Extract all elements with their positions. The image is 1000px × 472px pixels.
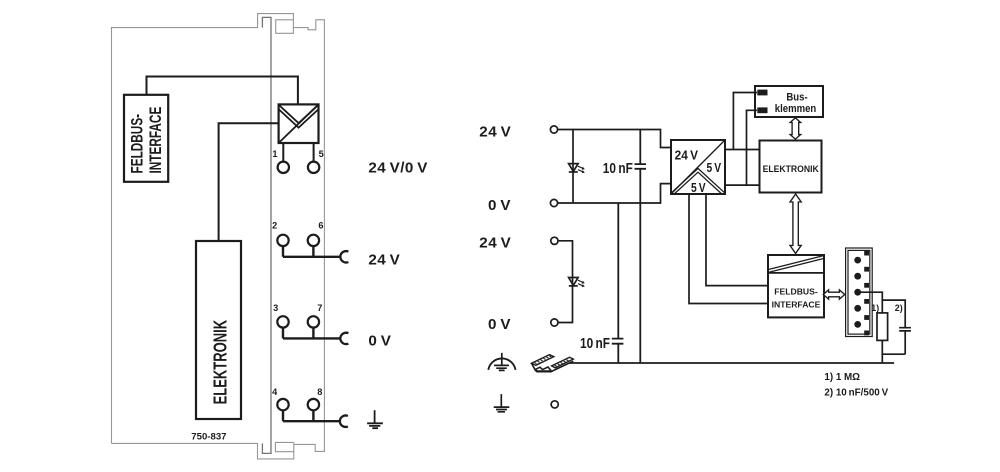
svg-text:2: 2 xyxy=(272,221,277,231)
svg-text:24 V/0 V: 24 V/0 V xyxy=(368,159,428,176)
svg-text:5 V: 5 V xyxy=(691,180,706,196)
svg-text:5 V: 5 V xyxy=(707,160,722,176)
svg-text:10 nF: 10 nF xyxy=(603,160,633,177)
svg-text:0 V: 0 V xyxy=(488,197,511,214)
svg-text:24 V: 24 V xyxy=(368,252,400,269)
svg-text:ELEKTRONIK: ELEKTRONIK xyxy=(210,320,231,405)
svg-text:2): 2) xyxy=(895,303,903,313)
svg-text:FELDBUS-: FELDBUS- xyxy=(129,114,147,174)
svg-text:0 V: 0 V xyxy=(368,333,391,350)
svg-text:8: 8 xyxy=(317,387,322,397)
svg-text:1): 1) xyxy=(871,303,879,313)
svg-text:7: 7 xyxy=(317,303,322,313)
svg-text:ELEKTRONIK: ELEKTRONIK xyxy=(763,164,820,175)
svg-text:1) 1 MΩ: 1) 1 MΩ xyxy=(824,372,860,383)
svg-text:INTERFACE: INTERFACE xyxy=(772,299,821,309)
svg-text:4: 4 xyxy=(272,387,278,397)
svg-text:FELDBUS-: FELDBUS- xyxy=(774,287,818,297)
svg-text:6: 6 xyxy=(318,221,323,231)
svg-text:1: 1 xyxy=(272,149,277,159)
svg-text:0 V: 0 V xyxy=(488,316,511,333)
svg-text:INTERFACE: INTERFACE xyxy=(147,107,165,174)
svg-text:klemmen: klemmen xyxy=(775,102,816,115)
svg-text:2) 10 nF/500 V: 2) 10 nF/500 V xyxy=(824,387,888,398)
svg-text:750-837: 750-837 xyxy=(191,432,226,443)
svg-text:3: 3 xyxy=(273,303,278,313)
svg-text:10 nF: 10 nF xyxy=(580,335,610,352)
svg-text:24 V: 24 V xyxy=(675,148,699,163)
svg-text:24 V: 24 V xyxy=(479,123,511,140)
svg-text:5: 5 xyxy=(319,149,324,159)
svg-text:24 V: 24 V xyxy=(479,235,511,252)
